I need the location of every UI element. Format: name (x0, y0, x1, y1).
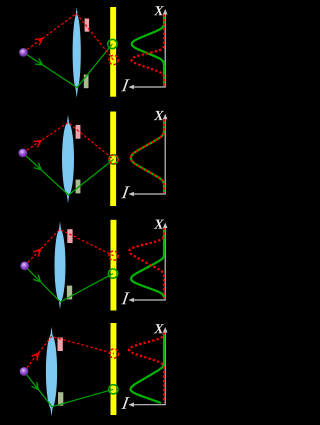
graph axes panel 3 (131, 227, 166, 301)
lens panel 1 (73, 7, 81, 98)
green ray panel 1 (23, 44, 112, 88)
red ray arrowhead panel 1 (35, 38, 42, 45)
screen (yellow detector) panel 2 (110, 112, 116, 207)
red ray arrowhead panel 3 (33, 249, 40, 256)
green-path filter plate panel 3 (67, 286, 72, 300)
red ray panel 2 (23, 123, 114, 160)
I axis label panel 2 (121, 186, 130, 198)
red intensity curve panel 1 (131, 15, 164, 87)
green ray arrowhead panel 2 (34, 163, 41, 170)
screen (yellow detector) panel 3 (111, 220, 117, 311)
screen (yellow detector) panel 4 (111, 323, 117, 415)
screen (yellow detector) panel 1 (110, 7, 116, 97)
X axis label panel 3 (154, 220, 164, 229)
red spot on screen panel 2 (109, 155, 118, 164)
green-path filter plate panel 4 (58, 392, 63, 406)
green ray arrowhead panel 4 (31, 382, 38, 389)
green intensity curve panel 2 (131, 119, 164, 193)
photon source sphere panel 3 (20, 262, 29, 271)
red intensity curve panel 4 (129, 333, 164, 403)
green ray arrowhead panel 3 (33, 275, 40, 282)
red-path filter plate panel 1 (85, 19, 90, 32)
photon source sphere panel 4 (20, 367, 29, 376)
red ray arrowhead panel 2 (34, 141, 41, 148)
green ray panel 3 (25, 266, 113, 302)
graph axes panel 1 (131, 13, 166, 87)
red ray panel 1 (23, 14, 113, 61)
red-path filter plate panel 4 (58, 338, 63, 352)
lens panel 4 (46, 327, 57, 417)
red-path filter plate panel 2 (76, 125, 81, 139)
red ray arrowhead panel 4 (31, 353, 38, 360)
red spot on screen panel 1 (109, 55, 118, 64)
graph axes panel 4 (131, 331, 166, 405)
red ray panel 3 (25, 229, 114, 265)
red-path filter plate panel 3 (67, 229, 72, 243)
green intensity curve panel 1 (132, 15, 164, 87)
red intensity curve panel 3 (129, 228, 164, 298)
red intensity curve panel 2 (131, 119, 164, 193)
green spot on screen panel 2 (109, 155, 118, 164)
green spot on screen panel 1 (108, 39, 117, 48)
red ray panel 4 (24, 337, 114, 372)
I axis label panel 1 (121, 79, 130, 91)
photon source sphere panel 1 (19, 48, 28, 57)
green ray panel 2 (23, 153, 114, 195)
green spot on screen panel 4 (109, 385, 118, 394)
X axis label panel 1 (154, 6, 164, 15)
green ray panel 4 (24, 371, 113, 406)
X axis label panel 2 (154, 111, 164, 120)
green intensity curve panel 3 (131, 228, 164, 298)
red spot on screen panel 3 (109, 251, 118, 260)
red spot on screen panel 4 (109, 349, 118, 358)
green spot on screen panel 3 (108, 269, 117, 278)
I axis label panel 3 (121, 292, 130, 304)
green-path filter plate panel 2 (76, 180, 81, 194)
graph axes panel 2 (131, 118, 166, 194)
green-path filter plate panel 1 (84, 75, 89, 89)
photon source sphere panel 2 (19, 149, 28, 158)
lens panel 3 (55, 221, 66, 309)
X axis label panel 4 (154, 324, 164, 333)
green ray arrowhead panel 1 (35, 58, 42, 65)
I axis label panel 4 (121, 397, 130, 409)
lens panel 2 (62, 115, 74, 204)
green intensity curve panel 4 (131, 333, 164, 403)
